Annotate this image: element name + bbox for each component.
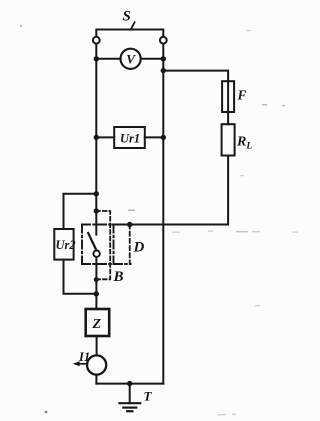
wire Ur1 left [96,136,114,138]
contact B blade [88,233,96,250]
voltmeter U1 [121,49,141,69]
contact pivot circle [93,251,99,257]
arrow I1 [76,363,88,365]
svg-text:B: B [113,269,124,285]
junction node Ur2 top [94,191,99,196]
svg-text:Ur1: Ur1 [120,131,140,145]
svg-text:Z: Z [92,317,102,332]
resistor RL [222,124,235,155]
junction node B top [94,208,99,213]
ground T stem [129,384,131,404]
junction node V right [161,56,166,61]
wire Ur2 top branch [64,194,97,229]
junction node B bottom [94,277,99,282]
dashed box B [96,211,110,279]
svg-text:T: T [144,389,153,404]
svg-text:Ur2: Ur2 [56,238,76,252]
junction node fuse branch [161,68,166,73]
junction node V left [94,56,99,61]
junction node Ur1 left [94,135,99,140]
box Ur2 [54,229,73,260]
switch terminal left [93,37,100,44]
current source I1 [87,355,106,374]
svg-text:S: S [123,9,131,25]
wire F to RL [227,112,229,124]
junction node D [127,222,132,227]
wire right main [162,44,164,384]
svg-text:RL: RL [236,135,252,152]
arrowhead I1 [73,361,80,366]
ground bar 3 [127,410,132,412]
wire left main [95,44,97,235]
svg-text:I1: I1 [78,350,90,364]
wire to fuse branch [163,71,228,82]
wire voltmeter right [141,58,164,60]
wire source to bottom [95,375,97,384]
wire voltmeter left [96,58,120,60]
box Ur1 [114,127,145,148]
junction node ground [127,381,132,386]
enclosure chain box [82,225,131,265]
junction node Ur2 bottom [94,291,99,296]
wire below contact [95,257,97,309]
svg-text:D: D [133,240,145,256]
impedance Z box [86,309,110,336]
switch S actuator tick [131,22,135,29]
wire Ur1 right [145,136,164,138]
wire Ur2 bottom branch [64,260,97,294]
svg-text:F: F [237,88,247,103]
fuse F [222,81,234,112]
ground bar 2 [123,407,136,409]
svg-text:V: V [126,52,136,67]
wire Z to source [96,336,98,356]
wire bottom [96,383,163,385]
ground bar 1 [119,402,140,404]
switch S top bar [96,30,163,37]
switch terminal right [160,37,167,44]
dashed lead D [129,225,131,265]
wire RL down-left [113,156,228,225]
junction node Ur1 right [161,135,166,140]
